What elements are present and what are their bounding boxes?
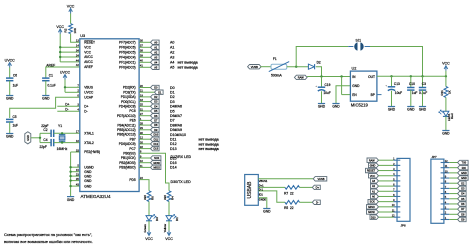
svg-text:15: 15 xyxy=(76,168,79,172)
wire net A5 xyxy=(139,66,150,68)
tag RESET (JP6 pin 3) xyxy=(366,168,379,172)
JP7 pin stub 11 xyxy=(441,167,450,169)
capacitor C4 xyxy=(51,139,54,146)
wire rail to R11 xyxy=(445,76,447,86)
wire JP6 pin 11 xyxy=(379,211,394,213)
svg-text:PD3(TX): PD3(TX) xyxy=(123,90,135,94)
svg-text:ID1: ID1 xyxy=(259,192,264,196)
svg-text:+: + xyxy=(385,83,387,87)
tag D8 xyxy=(151,123,160,127)
svg-text:C19: C19 xyxy=(325,83,331,87)
wire PE2 to gnd bundle xyxy=(71,151,80,153)
supply UVCC (C6) xyxy=(8,63,12,66)
svg-text:UVCC: UVCC xyxy=(5,58,16,62)
svg-text:C2: C2 xyxy=(43,128,47,132)
ground below C19 xyxy=(318,103,325,105)
svg-text:D13: D13 xyxy=(170,147,177,151)
svg-text:PD6(ADC9): PD6(ADC9) xyxy=(119,142,136,146)
JP6 pin stub 4 xyxy=(394,175,401,177)
svg-text:330: 330 xyxy=(143,195,147,200)
wire net D5 xyxy=(139,110,150,112)
wire net A4 xyxy=(139,61,150,63)
svg-text:нет вывода: нет вывода xyxy=(178,61,198,65)
wire net A2 xyxy=(139,51,150,53)
svg-text:23: 23 xyxy=(76,173,79,177)
svg-text:16: 16 xyxy=(76,139,79,143)
wire to AVCC pin 24 xyxy=(60,56,80,58)
svg-text:D15: D15 xyxy=(170,156,177,160)
svg-text:C3: C3 xyxy=(422,82,426,86)
wire GND pin 35 xyxy=(71,180,80,182)
svg-text:VCC: VCC xyxy=(84,45,91,49)
tag VCC (JP6 pin 4) xyxy=(369,174,379,178)
svg-text:Y1: Y1 xyxy=(58,124,62,128)
tag D9 (JP7 pin 1) xyxy=(458,217,467,221)
wire R4 to D1 xyxy=(168,202,170,216)
svg-text:PB2(MOSI): PB2(MOSI) xyxy=(119,161,135,165)
svg-text:D8#/A8: D8#/A8 xyxy=(170,123,182,127)
svg-text:нет вывода: нет вывода xyxy=(199,142,219,146)
tag D2 (JP7 pin 8) xyxy=(458,181,467,185)
connector X1 USBAB body xyxy=(245,175,259,206)
svg-text:A1: A1 xyxy=(170,46,174,50)
svg-text:33: 33 xyxy=(76,148,79,152)
tag D8 (JP7 pin 2) xyxy=(458,212,467,216)
wire D2 down to RAW net xyxy=(316,67,322,77)
wire VCC bundle vertical xyxy=(59,34,61,62)
svg-text:VCC: VCC xyxy=(370,175,375,178)
wire JP6 pin 9 xyxy=(379,201,394,203)
svg-text:AVCC: AVCC xyxy=(84,55,93,59)
wire JP7 pin 9 xyxy=(449,177,457,179)
tag MISO (JP6 pin 10) xyxy=(367,205,379,209)
svg-text:PF1(ADC1): PF1(ADC1) xyxy=(119,61,135,65)
wire U2 GND xyxy=(336,86,350,104)
wire VCC to R2 xyxy=(70,14,72,24)
tag MOSI xyxy=(151,161,161,165)
svg-text:C5: C5 xyxy=(13,115,17,119)
svg-text:PB0(SS): PB0(SS) xyxy=(123,152,135,156)
wire net D9#/A9 xyxy=(139,129,150,131)
wire R5 to tag xyxy=(300,201,313,203)
tag SCK (JP6 pin 9) xyxy=(368,199,379,203)
tag D3 (JP7 pin 7) xyxy=(458,186,467,190)
svg-text:PB3(MISO): PB3(MISO) xyxy=(119,166,135,170)
svg-text:D13: D13 xyxy=(154,148,159,151)
ground below LED1 xyxy=(442,130,449,132)
svg-text:USBAB: USBAB xyxy=(247,181,253,199)
wire F1 to D2 xyxy=(287,66,309,68)
wire AREF net xyxy=(46,67,80,78)
svg-text:A5: A5 xyxy=(170,66,174,70)
svg-text:VUSB: VUSB xyxy=(251,65,258,69)
JP6 pin stub 6 xyxy=(394,185,401,187)
svg-text:PF0(ADC0): PF0(ADC0) xyxy=(119,66,135,70)
capacitor C2 xyxy=(51,130,54,137)
tag A0 (JP6 pin 8) xyxy=(371,194,379,198)
svg-text:D3: D3 xyxy=(170,100,175,104)
wire to UVCC pin 2 xyxy=(65,91,80,93)
svg-text:GND: GND xyxy=(42,97,50,101)
svg-text:PE2(HWB): PE2(HWB) xyxy=(84,150,100,154)
svg-text:D6#/A7: D6#/A7 xyxy=(170,114,182,118)
ground tag (crystal) xyxy=(25,132,31,144)
svg-text:GND: GND xyxy=(388,108,396,112)
svg-text:GND: GND xyxy=(461,172,467,175)
svg-text:AVCC: AVCC xyxy=(84,60,93,64)
svg-text:U3: U3 xyxy=(80,34,85,38)
svg-text:VBUS: VBUS xyxy=(84,86,93,90)
capacitor C19 xyxy=(318,87,325,91)
JP7 pin stub 4 xyxy=(441,203,450,205)
svg-text:D10: D10 xyxy=(371,216,376,219)
wire JP6 pin 4 xyxy=(379,175,394,177)
tag D2 xyxy=(151,95,160,99)
svg-text:PD1(SDA): PD1(SDA) xyxy=(121,95,136,99)
tag TX0 (JP7 pin 12) xyxy=(458,160,469,164)
svg-text:43: 43 xyxy=(76,183,79,187)
tag D10 (JP6 pin 12) xyxy=(370,215,379,219)
svg-text:C10: C10 xyxy=(409,82,415,86)
svg-text:EN: EN xyxy=(352,93,357,97)
ground below C10 xyxy=(407,106,414,108)
wire D1 to VCC xyxy=(168,221,170,236)
wire net A0 xyxy=(139,41,150,43)
wire C13 stem xyxy=(391,76,393,86)
svg-text:D+: D+ xyxy=(316,186,320,190)
wire C13 to GND xyxy=(391,91,393,107)
wire C6 to GND xyxy=(9,81,11,96)
capacitor C6 xyxy=(6,78,13,81)
svg-text:MOSI: MOSI xyxy=(368,211,375,214)
svg-text:RAW: RAW xyxy=(369,159,375,162)
JP6 pin stub 5 xyxy=(394,180,401,182)
supply UVCC (VBUS) xyxy=(63,75,67,78)
svg-text:D5: D5 xyxy=(170,109,175,113)
svg-text:D10: D10 xyxy=(154,134,159,137)
wire JP7 pin 2 xyxy=(449,213,457,215)
wire C19 stem xyxy=(321,77,323,88)
tag A5 xyxy=(151,65,160,69)
svg-text:PF4(ADC4): PF4(ADC4) xyxy=(119,56,135,60)
svg-text:24: 24 xyxy=(76,53,79,57)
svg-text:C6: C6 xyxy=(13,74,17,78)
wire RAW to U2 IN xyxy=(307,76,350,78)
svg-text:PB5(ADC12): PB5(ADC12) xyxy=(117,128,135,132)
svg-text:PD2(RX): PD2(RX) xyxy=(123,86,136,90)
svg-text:PB6(ADC13): PB6(ADC13) xyxy=(117,133,135,137)
svg-text:VUSB: VUSB xyxy=(317,177,324,181)
wire net D6#/A7 xyxy=(139,115,150,117)
svg-text:AREF: AREF xyxy=(84,65,93,69)
wire R6 to D3 xyxy=(148,202,150,216)
svg-text:PB7: PB7 xyxy=(130,137,136,141)
svg-text:нет вывода: нет вывода xyxy=(178,66,198,70)
svg-text:GND: GND xyxy=(6,135,14,139)
wire net D13 xyxy=(139,148,150,150)
svg-text:GND: GND xyxy=(26,135,30,141)
svg-text:D-: D- xyxy=(316,200,319,204)
svg-text:SCK: SCK xyxy=(370,201,375,204)
supply VCC (TX LED) xyxy=(147,232,151,235)
svg-text:UGND: UGND xyxy=(84,165,94,169)
svg-text:MIC5219: MIC5219 xyxy=(351,103,369,108)
wire net A1 xyxy=(139,46,150,48)
wire net D15 xyxy=(139,157,150,159)
fuse F1 xyxy=(271,64,287,69)
wire to AVCC pin 44 xyxy=(60,61,80,63)
wire JP7 pin 8 xyxy=(449,182,457,184)
svg-text:OUT: OUT xyxy=(368,75,375,79)
tag D+ xyxy=(312,185,320,189)
wire to VCC pin 34 xyxy=(60,51,80,53)
wire JP6 pin 5 xyxy=(379,180,394,182)
svg-text:RXI: RXI xyxy=(462,167,466,170)
svg-text:R5 22: R5 22 xyxy=(284,206,294,210)
svg-text:GND: GND xyxy=(67,198,75,202)
svg-text:D4#/A6: D4#/A6 xyxy=(170,105,182,109)
svg-text:PD4(ADC8): PD4(ADC8) xyxy=(119,105,136,109)
wire LED to GND xyxy=(445,116,447,130)
wire R2 to RESET pin xyxy=(71,34,80,43)
JP7 pin stub 7 xyxy=(441,187,450,189)
resistor R2 xyxy=(69,24,73,34)
tag VUSB (usb) xyxy=(313,177,327,181)
wire GND pin 43 xyxy=(71,185,80,187)
svg-text:нет вывода: нет вывода xyxy=(199,147,219,151)
svg-text:D10#/A10: D10#/A10 xyxy=(170,133,186,137)
tag MISO xyxy=(151,165,161,169)
tag D7 (JP7 pin 3) xyxy=(458,207,467,211)
supply VCC (main) xyxy=(58,29,62,32)
svg-text:MISO: MISO xyxy=(368,206,374,209)
svg-text:PC7: PC7 xyxy=(129,147,135,151)
LED D3 xyxy=(146,216,152,221)
wire JP7 pin 3 xyxy=(449,208,457,210)
resistor R5 xyxy=(285,201,300,205)
wire UVCC vertical xyxy=(64,80,66,93)
svg-text:PF6(ADC6): PF6(ADC6) xyxy=(119,46,135,50)
wire JP7 pin 4 xyxy=(449,203,457,205)
connector JP6 body xyxy=(397,158,410,221)
wire net D12 xyxy=(139,143,150,145)
JP6 pin stub 11 xyxy=(394,211,401,213)
wire EN to U2 xyxy=(342,94,351,96)
wire net D11 xyxy=(139,138,150,140)
wire net D0 xyxy=(139,87,150,89)
svg-text:VCC: VCC xyxy=(442,62,450,66)
wire JP7 pin 1 xyxy=(449,218,457,220)
junction VBUS xyxy=(64,86,66,88)
JP6 pin stub 3 xyxy=(394,170,401,172)
tag GND (JP7 pin 9) xyxy=(458,176,469,180)
svg-text:F1: F1 xyxy=(273,57,277,61)
wire JP7 pin 5 xyxy=(449,198,457,200)
JP6 pin stub 10 xyxy=(394,206,401,208)
wire R7 to tag xyxy=(300,186,313,188)
wire net D2 xyxy=(139,96,150,98)
svg-text:Red: Red xyxy=(450,113,454,119)
svg-text:GND: GND xyxy=(263,210,271,214)
wire C3 to GND xyxy=(422,90,424,106)
JP6 pin stub 1 xyxy=(394,159,401,161)
svg-text:D-: D- xyxy=(84,109,87,113)
JP7 pin stub 1 xyxy=(441,218,450,220)
JP6 pin stub 8 xyxy=(394,195,401,197)
svg-text:PF5(ADC5): PF5(ADC5) xyxy=(119,51,135,55)
wire JP6 pin 10 xyxy=(379,206,394,208)
junction SJ1 branch xyxy=(295,66,297,68)
JP7 pin stub 3 xyxy=(441,208,450,210)
tag RAW (JP6 pin 1) xyxy=(367,158,379,162)
tag MOSI (JP6 pin 11) xyxy=(367,210,379,214)
svg-text:C13: C13 xyxy=(394,82,400,86)
resistor R11 xyxy=(444,87,448,98)
capacitor C13 xyxy=(388,87,395,91)
svg-text:D9#/A9: D9#/A9 xyxy=(170,128,182,132)
wire net D3 xyxy=(139,101,150,103)
svg-text:GND: GND xyxy=(318,105,326,109)
JP7 pin stub 6 xyxy=(441,193,450,195)
svg-text:PF7(ADC7): PF7(ADC7) xyxy=(119,41,135,45)
JP7 pin stub 12 xyxy=(441,162,450,164)
svg-text:42: 42 xyxy=(76,63,79,67)
capacitor C5 xyxy=(6,119,13,122)
diode D2 xyxy=(308,64,314,69)
svg-text:16MHz: 16MHz xyxy=(57,147,68,151)
wire JP6 pin 7 xyxy=(379,190,394,192)
resistor R6 xyxy=(147,191,151,202)
junction rail xyxy=(390,75,392,77)
junction C19 xyxy=(320,75,322,77)
svg-text:C1: C1 xyxy=(49,74,53,78)
supply VCC (output) xyxy=(444,66,448,69)
wire UGND pin 5 xyxy=(71,166,80,168)
svg-text:GND: GND xyxy=(442,132,450,136)
svg-text:R11: R11 xyxy=(440,90,444,96)
svg-text:GND: GND xyxy=(419,108,427,112)
svg-text:PC6: PC6 xyxy=(129,109,135,113)
svg-text:R2: R2 xyxy=(63,28,67,32)
svg-text:нет вывода: нет вывода xyxy=(199,138,219,142)
tag D0 xyxy=(151,85,160,89)
wire caps vertical xyxy=(39,133,41,142)
wire C19 to GND xyxy=(321,91,323,103)
tag A4 xyxy=(151,60,160,64)
svg-text:D2: D2 xyxy=(170,95,175,99)
wire gnd bundle vertical xyxy=(70,152,72,197)
svg-text:UCAP: UCAP xyxy=(84,96,93,100)
svg-text:PD5: PD5 xyxy=(129,178,135,182)
svg-text:13: 13 xyxy=(76,39,79,43)
svg-text:GND: GND xyxy=(6,97,14,101)
svg-text:D11: D11 xyxy=(170,138,176,142)
tag D- xyxy=(312,200,320,204)
wire C5 to GND xyxy=(9,122,11,134)
svg-text:D11: D11 xyxy=(154,138,159,141)
svg-text:17: 17 xyxy=(76,130,79,134)
svg-text:U2: U2 xyxy=(352,67,357,71)
wire JP7 pin 7 xyxy=(449,187,457,189)
wire C2 left xyxy=(40,132,51,134)
svg-text:C4: C4 xyxy=(43,138,47,142)
svg-text:PD0(SCL): PD0(SCL) xyxy=(121,100,136,104)
wire usb GND xyxy=(258,198,267,209)
svg-text:A4: A4 xyxy=(170,61,174,65)
svg-text:A0: A0 xyxy=(170,41,174,45)
svg-text:BP: BP xyxy=(371,93,375,97)
svg-text:VCC: VCC xyxy=(84,50,91,54)
svg-text:Green: Green xyxy=(143,224,147,233)
svg-text:0.1uF: 0.1uF xyxy=(48,84,56,88)
wire TX LED net xyxy=(139,180,149,191)
svg-text:MOSI: MOSI xyxy=(154,162,161,165)
svg-text:D16: D16 xyxy=(170,161,177,165)
wire C1 to GND xyxy=(45,81,47,96)
LED D1 xyxy=(166,216,172,221)
crystal Y1 xyxy=(61,133,63,134)
svg-text:R6: R6 xyxy=(150,196,154,200)
wire OUT rail xyxy=(377,75,446,77)
svg-text:VCC: VCC xyxy=(67,4,75,8)
JP7 pin stub 5 xyxy=(441,198,450,200)
svg-text:D+: D+ xyxy=(84,105,88,109)
ground below C6 xyxy=(6,95,13,97)
svg-text:TX0: TX0 xyxy=(462,162,467,165)
svg-text:14: 14 xyxy=(76,44,79,48)
svg-text:RESET: RESET xyxy=(367,170,376,173)
JP7 pin stub 2 xyxy=(441,213,450,215)
tag D4 xyxy=(151,104,160,108)
wire GND pin 15 xyxy=(71,171,80,173)
wire net A3 xyxy=(139,56,150,58)
svg-text:Схема распространяется на усло: Схема распространяется на условиях "как … xyxy=(4,232,92,237)
svg-text:GND: GND xyxy=(84,174,92,178)
svg-text:UVCC: UVCC xyxy=(60,70,71,74)
svg-text:D1: D1 xyxy=(170,91,175,95)
svg-text:ATMEGA32U4: ATMEGA32U4 xyxy=(81,194,111,199)
regulator U2 body xyxy=(350,71,377,101)
svg-text:10uF: 10uF xyxy=(323,91,330,95)
svg-text:JP6: JP6 xyxy=(401,224,407,228)
svg-text:1K: 1K xyxy=(448,90,452,94)
wire UVCC to C6 xyxy=(9,68,11,79)
svg-text:A3: A3 xyxy=(170,56,174,60)
wire VBUS to VUSB tag xyxy=(258,178,313,180)
junction EN xyxy=(340,75,342,77)
wire JP7 pin 6 xyxy=(449,193,457,195)
svg-text:D2: D2 xyxy=(317,61,321,65)
tag D3 xyxy=(151,99,160,103)
tag A2 xyxy=(151,50,160,54)
supply VCC (reset pull-up) xyxy=(69,9,73,12)
svg-text:GND: GND xyxy=(461,177,467,180)
resistor R4 xyxy=(167,191,171,202)
wire JP6 pin 1 xyxy=(379,159,394,161)
wire net D- xyxy=(57,110,80,112)
svg-text:UVCC: UVCC xyxy=(84,91,94,95)
svg-text:GND: GND xyxy=(84,179,92,183)
wire net D1 xyxy=(139,91,154,93)
wire JP6 pin 2 xyxy=(379,164,394,166)
tag D13 xyxy=(151,146,160,150)
connector JP7 body xyxy=(431,159,444,223)
tag D10 xyxy=(151,132,160,136)
svg-text:GND: GND xyxy=(370,164,376,167)
wire C10 to GND xyxy=(410,90,412,106)
tag A3 (JP6 pin 5) xyxy=(371,179,379,183)
svg-text:D12: D12 xyxy=(170,142,177,146)
